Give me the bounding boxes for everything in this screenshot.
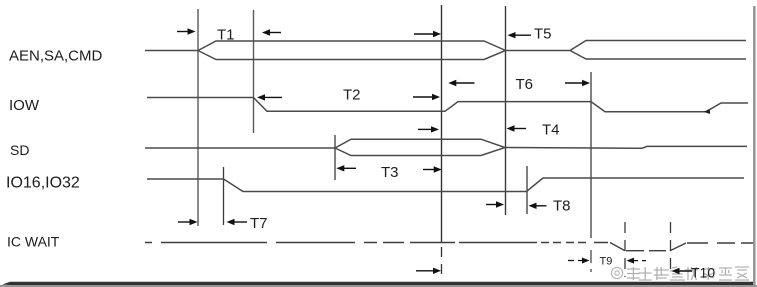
arrow T10 left [672,268,693,274]
arrow T7 left [227,219,248,225]
right grey border [753,6,756,285]
svg-text:T2: T2 [343,87,361,104]
vertical ref line at x=335 (SD split) [334,135,336,180]
arrow T8 right [486,201,504,207]
vertical ref line at x=591 dashed lower part [590,250,592,272]
svg-text:T8: T8 [553,198,571,215]
arrow T3 right [423,166,442,172]
svg-text:T3: T3 [381,164,399,181]
svg-text:AEN,SA,CMD: AEN,SA,CMD [9,48,103,65]
vertical ref line at x=505.5 [505,6,507,215]
arrow T1 left [262,29,281,35]
arrow T9 right dashed [568,258,590,264]
signal IO16,IO32 waveform [147,178,744,192]
arrow T2 left [257,94,282,100]
signal IC WAIT falling edge [610,243,625,251]
vertical ref line at x=253.5 [253,10,255,133]
signal AEN,SA,CMD waveform [145,41,746,60]
arrow T4 left [507,125,527,131]
arrow T5 right [414,31,441,37]
arrow T6 left [448,80,474,86]
signal IOW waveform [147,98,748,112]
arrow bottom right (points to dashed x=441.5 at y=270.8) [416,268,441,274]
svg-text:T5: T5 [534,26,552,43]
signal SD waveform [145,139,747,155]
svg-text:T4: T4 [542,122,560,139]
vertical ref line at x=591 solid part [590,72,592,238]
signal IC WAIT high right [687,242,753,244]
vertical dashed ref line at x=625 [624,222,626,277]
arrow SD right (points to x=441 at y=129) [418,126,439,132]
svg-text:IO16,IO32: IO16,IO32 [6,175,80,192]
arrow T1 right [177,28,196,34]
vertical ref line at x=441.5 solid part [441,5,443,243]
svg-text:T9: T9 [600,256,613,268]
arrow T7 right [178,219,198,225]
signal IC WAIT rising edge [670,243,686,251]
svg-text:IC WAIT: IC WAIT [7,234,60,250]
svg-text:IOW: IOW [9,97,40,114]
vertical ref line at x=527 (T8) [526,166,528,214]
small arrowhead artifact at IOW right elbow [704,109,711,114]
watermark @稀土掘金技术社区 (hand-drawn grey glyph blocks) [611,267,622,278]
svg-text:T7: T7 [250,215,268,232]
arrow T9 left dashed [627,258,647,264]
arrow T3 left [336,165,356,171]
vertical ref line at x=441.5 dashed lower part [441,247,443,276]
arrow T6 right [565,80,590,86]
vertical dashed ref line at x=670.5 [670,222,672,274]
signal IC WAIT low segment [626,250,666,252]
arrow T8 left [529,203,547,209]
bottom dark bar [2,282,753,285]
arrow T2 right [413,94,440,100]
signal IC WAIT dashed waveform high left [145,242,608,244]
arrow T5 left [508,32,532,38]
svg-text:T1: T1 [217,27,235,44]
vertical ref line at x=198 [197,9,199,226]
vertical ref line at x=223.5 (T7) [223,167,225,225]
svg-text:T10: T10 [691,265,715,281]
svg-text:SD: SD [10,142,29,158]
svg-text:T6: T6 [516,76,534,93]
bottom grey strip [0,285,757,287]
